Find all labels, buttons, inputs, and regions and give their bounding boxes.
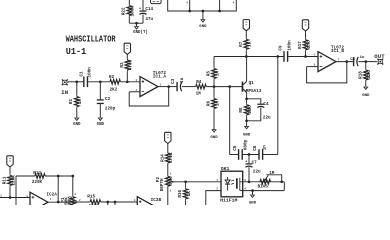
svg-text:4: 4: [186, 1, 188, 4]
svg-text:R16: R16: [178, 190, 183, 198]
svg-text:100K: 100K: [131, 6, 136, 17]
svg-text:1u: 1u: [360, 56, 365, 60]
svg-text:FREQ: FREQ: [68, 196, 73, 205]
svg-text:1M: 1M: [215, 71, 220, 77]
svg-text:1: 1: [170, 190, 172, 193]
svg-text:7: 7: [338, 58, 340, 61]
svg-text:R22: R22: [122, 7, 127, 15]
svg-text:R18: R18: [358, 71, 363, 79]
svg-text:GND: GND: [210, 136, 218, 140]
svg-text:+: +: [139, 7, 141, 11]
svg-text:4: 4: [233, 1, 235, 4]
svg-text:10K: 10K: [248, 106, 253, 114]
svg-text:5: 5: [314, 53, 316, 56]
svg-text:3: 3: [170, 172, 172, 175]
svg-text:C3: C3: [171, 78, 176, 84]
svg-text:1M: 1M: [196, 92, 202, 97]
svg-text:2: 2: [79, 199, 81, 202]
svg-text:100n: 100n: [287, 40, 292, 51]
svg-text:R5: R5: [207, 71, 212, 77]
svg-text:100n: 100n: [87, 67, 92, 78]
svg-text:100K: 100K: [89, 204, 100, 205]
svg-text:1: 1: [216, 179, 218, 182]
svg-text:OK1: OK1: [221, 166, 230, 172]
svg-text:IC1_B: IC1_B: [331, 49, 345, 54]
svg-text:680p: 680p: [243, 139, 248, 150]
svg-text:470K: 470K: [129, 59, 134, 70]
svg-text:R8: R8: [239, 107, 244, 113]
svg-text:220K: 220K: [32, 180, 43, 185]
svg-text:R15: R15: [87, 195, 95, 200]
svg-text:47u: 47u: [145, 17, 153, 22]
svg-text:1M: 1M: [215, 101, 220, 107]
svg-text:R1: R1: [69, 99, 74, 105]
svg-text:1: 1: [160, 83, 162, 86]
svg-text:22K: 22K: [367, 71, 372, 79]
svg-text:1M: 1M: [78, 99, 83, 105]
svg-text:GND: GND: [243, 133, 251, 137]
svg-text:2K2: 2K2: [110, 88, 118, 93]
svg-text:22u: 22u: [263, 115, 271, 120]
svg-text:1: 1: [50, 198, 52, 201]
svg-text:R2: R2: [109, 75, 115, 80]
svg-text:C9: C9: [279, 45, 284, 51]
svg-text:R17: R17: [298, 41, 303, 49]
svg-text:C14: C14: [145, 7, 153, 12]
svg-text:IC1_A: IC1_A: [153, 75, 167, 80]
svg-text:1: 1: [74, 193, 76, 196]
svg-text:R13: R13: [33, 171, 41, 176]
svg-text:2: 2: [0, 194, 2, 197]
svg-text:1K: 1K: [248, 41, 253, 47]
svg-text:1K: 1K: [187, 191, 192, 197]
svg-text:WAHSCILLATOR: WAHSCILLATOR: [66, 35, 116, 45]
svg-text:+: +: [245, 161, 247, 165]
svg-text:R3: R3: [120, 62, 125, 68]
svg-text:IN: IN: [61, 89, 68, 96]
svg-text:R11: R11: [2, 176, 7, 184]
svg-text:GND: GND: [362, 94, 370, 98]
svg-text:6: 6: [314, 63, 316, 66]
svg-text:3: 3: [26, 195, 28, 198]
svg-text:R7: R7: [239, 41, 244, 47]
svg-text:IC2A: IC2A: [46, 192, 57, 197]
svg-text:3: 3: [134, 199, 136, 202]
svg-text:IC2B: IC2B: [151, 198, 162, 203]
svg-text:GND: GND: [97, 123, 105, 127]
svg-text:DEPTH: DEPTH: [160, 178, 165, 191]
svg-text:47K: 47K: [307, 41, 312, 49]
svg-text:C4: C4: [263, 102, 269, 107]
svg-text:GND: GND: [199, 25, 207, 29]
svg-text:1u: 1u: [180, 77, 185, 83]
svg-text:C6: C6: [253, 145, 258, 151]
svg-text:OUT: OUT: [374, 53, 385, 60]
svg-text:Q1: Q1: [249, 81, 255, 86]
svg-text:GND: GND: [249, 201, 257, 205]
svg-text:H11F1M: H11F1M: [220, 197, 237, 203]
svg-text:MPSA13: MPSA13: [246, 89, 262, 94]
svg-text:GND(T): GND(T): [133, 30, 148, 35]
svg-text:470K: 470K: [169, 152, 174, 163]
svg-text:1n: 1n: [262, 145, 267, 151]
svg-text:R14: R14: [160, 154, 165, 162]
svg-text:BIAS: BIAS: [258, 184, 269, 189]
svg-text:R4: R4: [196, 80, 202, 85]
svg-text:U1-1: U1-1: [66, 47, 86, 57]
svg-text:220p: 220p: [105, 106, 116, 111]
svg-text:C5: C5: [233, 145, 238, 151]
svg-text:C2: C2: [105, 97, 111, 102]
svg-text:22u: 22u: [253, 170, 261, 175]
svg-text:C7: C7: [252, 160, 258, 165]
svg-text:R6: R6: [207, 101, 212, 107]
svg-text:GND: GND: [73, 123, 81, 127]
svg-text:C8: C8: [350, 58, 355, 62]
svg-text:C1: C1: [79, 71, 84, 77]
svg-text:1M: 1M: [269, 171, 275, 176]
svg-text:3: 3: [136, 79, 138, 82]
